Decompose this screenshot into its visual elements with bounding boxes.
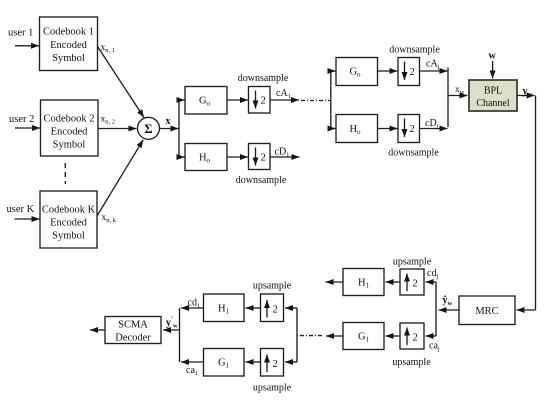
- svg-text:2: 2: [261, 153, 266, 164]
- block G1 left: [204, 349, 245, 377]
- svg-text:Channel: Channel: [476, 98, 510, 109]
- svg-text:cdj: cdj: [427, 268, 438, 280]
- svg-text:upsample: upsample: [392, 357, 431, 368]
- wire dashed ellipsis between codebook2 and codebookK: [64, 163, 66, 184]
- svg-text:2: 2: [413, 279, 418, 290]
- svg-text:cd1: cd1: [188, 298, 201, 310]
- svg-text:upsample: upsample: [253, 383, 292, 394]
- svg-text:upsample: upsample: [253, 281, 292, 292]
- upsampler top left arrow glyph: [266, 300, 268, 318]
- wire cDj to merge: [420, 128, 448, 130]
- svg-text:xn, 2: xn, 2: [101, 115, 116, 126]
- svg-text:downsample: downsample: [388, 148, 439, 159]
- wire right upsample branch vertical: [435, 282, 437, 336]
- svg-text:Encoded: Encoded: [50, 218, 87, 229]
- block upsampler top right: [400, 269, 424, 295]
- downsampler bottom stage1 arrow glyph: [255, 148, 257, 166]
- wire H0 to downsampler stage1: [227, 156, 248, 158]
- downsampler top stage2 arrow glyph: [404, 62, 406, 81]
- svg-text:Go: Go: [349, 67, 361, 79]
- wire G0 to downsampler stage1: [227, 99, 248, 101]
- wire stage2 branch vertical: [330, 71, 332, 129]
- block G0 stage1: [185, 87, 227, 115]
- upsampler bottom left arrow glyph: [266, 355, 268, 373]
- wire into MRC: [517, 309, 536, 311]
- downsampler top stage1 arrow glyph: [255, 91, 257, 109]
- svg-text:yw: yw: [523, 86, 533, 98]
- block downsampler top stage2: [398, 58, 420, 86]
- wire user1 input arrow: [15, 45, 39, 47]
- wire codebook2 to summer: [98, 128, 137, 130]
- svg-text:2: 2: [273, 305, 278, 316]
- svg-text:Symbol: Symbol: [52, 53, 85, 64]
- block SCMA Decoder: [105, 317, 161, 344]
- svg-text:user K: user K: [7, 204, 35, 215]
- wire stage2 branch to H0: [331, 128, 336, 130]
- svg-text:BPL: BPL: [484, 86, 502, 97]
- wire cD1 output arrow: [270, 156, 300, 158]
- wire summer to stage1 branch: [160, 128, 179, 130]
- svg-text:Symbol: Symbol: [53, 140, 86, 151]
- svg-text:user 2: user 2: [9, 114, 34, 125]
- svg-text:H1: H1: [358, 278, 370, 290]
- svg-text:SCMA: SCMA: [118, 320, 148, 331]
- block downsampler top stage1: [249, 87, 271, 114]
- block H0 stage1: [185, 144, 227, 171]
- wire branch to upsampler top left: [285, 307, 297, 309]
- svg-text:ŷw: ŷw: [443, 295, 453, 307]
- wire SCMA decoder output: [90, 329, 105, 331]
- block H0 stage2: [336, 115, 378, 143]
- svg-text:Codebook 2: Codebook 2: [43, 114, 94, 125]
- block Codebook K: [40, 191, 97, 248]
- svg-text:upsample: upsample: [393, 257, 432, 268]
- wire cAj to merge: [420, 70, 448, 72]
- wire into SCMA decoder: [163, 329, 180, 331]
- block MRC: [459, 296, 515, 325]
- wire dash-dot cA1 to stage2: [301, 100, 331, 102]
- wire long vertical BPL to MRC: [535, 96, 537, 311]
- svg-text:cDj: cDj: [425, 118, 439, 130]
- wire codebookK to summer: [97, 140, 143, 216]
- wire w into BPL: [492, 61, 494, 79]
- svg-text:2: 2: [410, 67, 415, 78]
- block upsampler bottom left: [261, 349, 284, 377]
- svg-text:Decoder: Decoder: [115, 333, 151, 344]
- wire G0 to downsampler stage2: [378, 70, 398, 72]
- wire upsampler to G1 right: [386, 335, 401, 337]
- svg-text:2: 2: [413, 333, 418, 344]
- block upsampler top left: [261, 294, 284, 322]
- svg-text:Encoded: Encoded: [50, 40, 87, 51]
- block downsampler bottom stage2: [398, 115, 420, 143]
- svg-text:x: x: [166, 116, 171, 127]
- wire yw out of BPL: [517, 95, 535, 97]
- wire user2 input arrow: [15, 127, 40, 129]
- wire stage1 branch vertical: [178, 100, 180, 157]
- svg-text:caj: caj: [429, 341, 440, 353]
- wire userK input arrow: [15, 218, 40, 220]
- upsampler top right arrow glyph: [406, 274, 408, 292]
- wire left merge vertical: [179, 308, 181, 362]
- block downsampler bottom stage1: [249, 144, 271, 170]
- svg-text:H1: H1: [218, 304, 230, 316]
- svg-text:2: 2: [410, 124, 415, 135]
- wire MRC output yhat: [439, 309, 460, 311]
- wire merge vertical stage2: [447, 68, 449, 128]
- wire upsampler to G1 left: [246, 361, 261, 363]
- block upsampler bottom right: [400, 323, 424, 349]
- block Codebook 1: [40, 17, 98, 71]
- svg-text:G1: G1: [358, 332, 370, 344]
- wire cd1 H1 left output: [181, 307, 204, 309]
- svg-text:Σ: Σ: [144, 122, 152, 136]
- svg-text:MRC: MRC: [475, 306, 498, 317]
- svg-text:Ho: Ho: [349, 124, 361, 136]
- svg-text:w: w: [489, 51, 497, 62]
- wire dash-dot G1 right to left stage: [298, 335, 323, 337]
- wire left upsample branch vertical: [296, 308, 298, 362]
- wire ca1 G1 left output: [181, 361, 204, 363]
- downsampler bottom stage2 arrow glyph: [404, 119, 406, 138]
- block Codebook 2: [41, 100, 99, 156]
- block G0 stage2: [336, 58, 378, 86]
- svg-text:G1: G1: [218, 358, 230, 370]
- svg-text:ca1: ca1: [186, 365, 198, 377]
- svg-text:2: 2: [273, 359, 278, 370]
- svg-text:xn, 1: xn, 1: [101, 43, 116, 54]
- svg-text:downsample: downsample: [238, 73, 289, 84]
- block G1 right: [343, 323, 384, 350]
- svg-text:downsample: downsample: [236, 175, 287, 186]
- wire upsampler to H1 right: [386, 281, 401, 283]
- svg-text:Codebook K: Codebook K: [42, 205, 96, 216]
- svg-text:xw: xw: [455, 85, 465, 96]
- svg-text:cD1: cD1: [275, 147, 290, 159]
- block H1 left: [204, 294, 245, 322]
- wire stage1 branch to H0: [179, 156, 185, 158]
- wire branch to upsampler top right: [426, 281, 437, 283]
- summer circle: [138, 117, 160, 139]
- svg-text:xn, k: xn, k: [102, 213, 117, 224]
- wire H1 right output arrow: [326, 281, 344, 283]
- block H1 right: [343, 269, 384, 296]
- svg-text:2: 2: [261, 96, 266, 107]
- svg-text:user 1: user 1: [8, 28, 33, 39]
- svg-text:Codebook 1: Codebook 1: [43, 27, 94, 38]
- svg-text:cAj: cAj: [426, 59, 440, 71]
- wire codebook1 to summer: [98, 47, 145, 118]
- upsampler bottom right arrow glyph: [406, 328, 408, 346]
- wire branch to upsampler bottom left: [285, 361, 297, 363]
- svg-text:Ho: Ho: [199, 153, 211, 165]
- svg-text:downsample: downsample: [389, 44, 440, 55]
- wire branch to upsampler bottom right: [426, 335, 437, 337]
- wire stage2 branch to G0: [331, 70, 336, 72]
- wire stage1 branch to G0: [179, 99, 185, 101]
- svg-text:Go: Go: [199, 96, 211, 108]
- svg-text:y'w: y'w: [166, 316, 178, 330]
- wire H0 to downsampler stage2: [378, 128, 398, 130]
- wire xw into BPL: [448, 95, 468, 97]
- wire G1 right output arrow: [326, 335, 343, 337]
- svg-text:cA1: cA1: [276, 88, 291, 100]
- svg-text:Encoded: Encoded: [51, 127, 88, 138]
- wire cA1 output arrow: [270, 99, 299, 101]
- block BPL Channel: [469, 80, 517, 111]
- svg-text:Symbol: Symbol: [52, 231, 85, 242]
- wire upsampler to H1 left: [246, 307, 261, 309]
